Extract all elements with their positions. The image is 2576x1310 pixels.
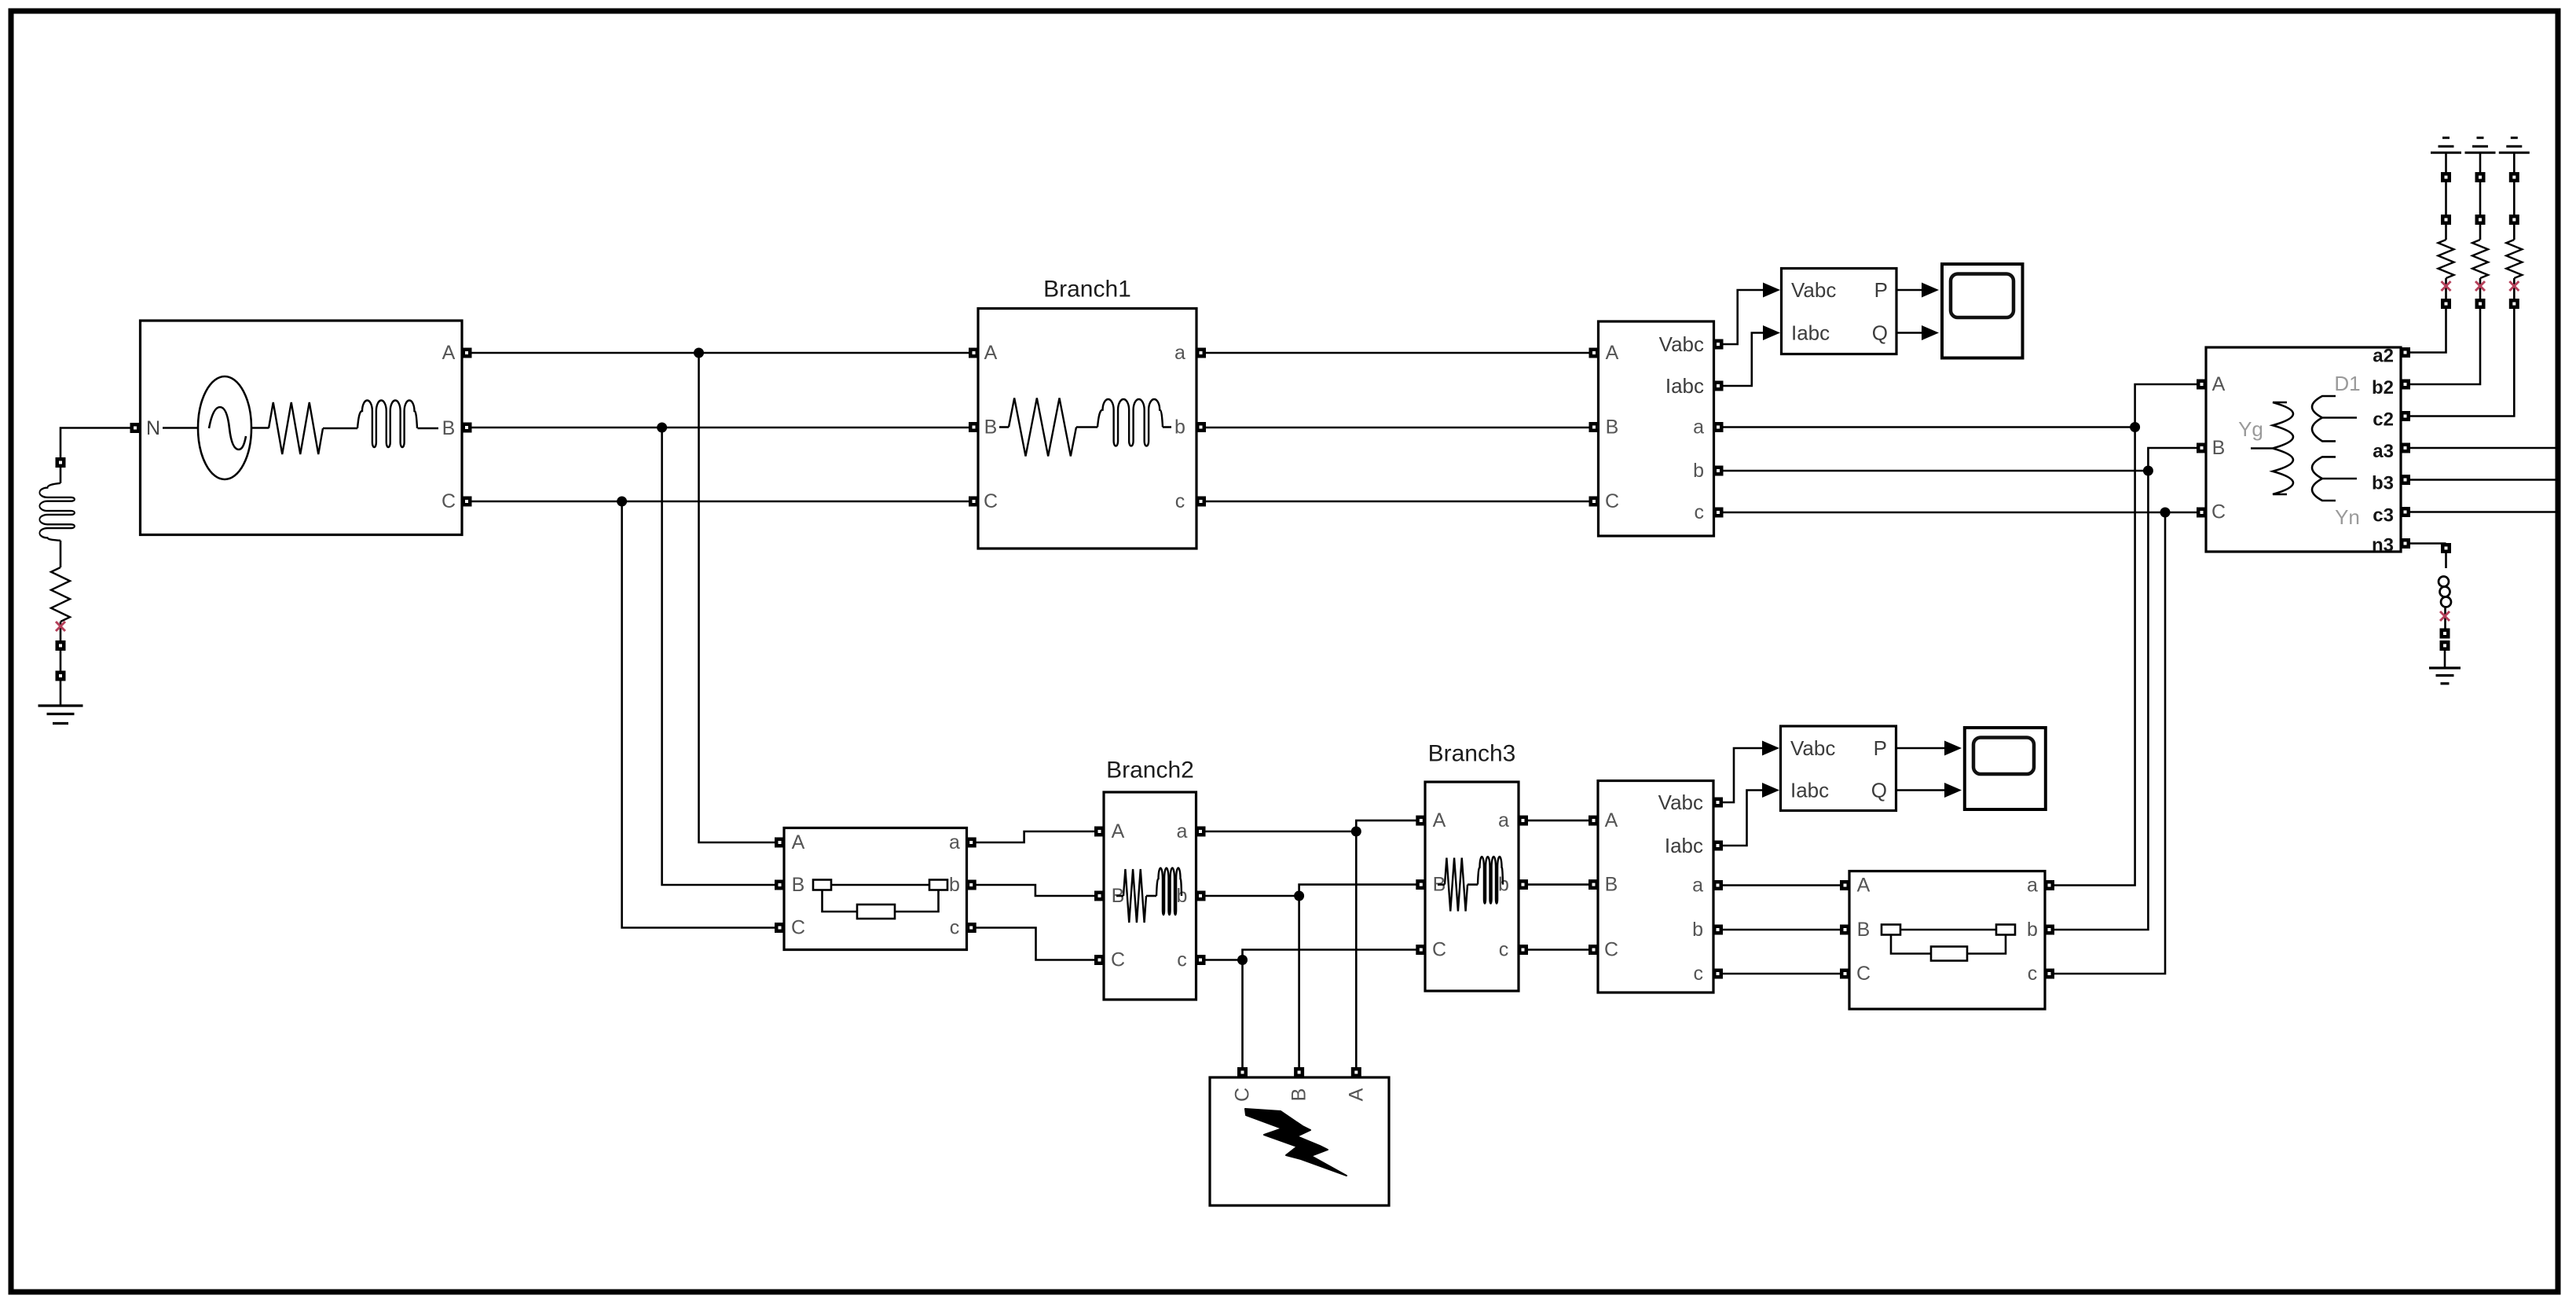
svg-text:a3: a3 [2373, 441, 2394, 462]
wire a2 to load R1 [2409, 308, 2446, 353]
junction node C2 [2160, 508, 2171, 518]
scope2 block [1965, 728, 2046, 809]
junction node B2 [2143, 466, 2153, 476]
svg-text:c: c [1175, 490, 1185, 512]
svg-text:B: B [1606, 416, 1619, 439]
VI2 port A [1588, 816, 1599, 826]
BRK2 port B [1840, 925, 1850, 935]
Branch1 port b [1196, 422, 1206, 432]
Branch1 internal inductor [1097, 399, 1163, 446]
svg-text:a: a [1174, 342, 1185, 364]
svg-text:A: A [1345, 1088, 1367, 1101]
svg-text:Branch1: Branch1 [1043, 277, 1131, 303]
svg-text:D1: D1 [2334, 372, 2360, 395]
Branch2 port B [1094, 891, 1105, 901]
svg-text:Yg: Yg [2238, 417, 2263, 441]
svg-text:A: A [984, 342, 998, 364]
VI1 port Iabc [1713, 381, 1724, 391]
load resistor R1 [2439, 240, 2454, 278]
three-phase source block [141, 321, 463, 535]
wire a3 bus to frame [2409, 447, 2556, 450]
svg-text:B: B [442, 417, 456, 439]
wire R3 to resistor [2513, 225, 2516, 240]
wire n3 port to inductor [2445, 553, 2447, 569]
svg-text:C: C [1232, 1088, 1254, 1102]
svg-text:Branch2: Branch2 [1106, 758, 1194, 783]
neutral grounding inductor L [39, 483, 75, 541]
wire c3 bus to frame [2409, 511, 2556, 513]
Branch3 port B [1416, 879, 1426, 890]
wire VI1 a to node A2 [1723, 426, 2135, 428]
wire Branch2 c east [1205, 959, 1243, 961]
svg-text:N: N [146, 417, 160, 439]
Branch3 internal inductor [1478, 857, 1503, 904]
Branch3 port A [1416, 816, 1426, 826]
wire BRK1 b to Branch2 B [976, 885, 1095, 896]
svg-text:A: A [1857, 875, 1871, 897]
wire P2 Q to scope2 [1896, 789, 1945, 791]
BRK2 port b [2044, 925, 2054, 935]
source sine wave glyph [209, 407, 246, 450]
VI2 port a [1713, 880, 1723, 890]
n3 chain port upper [2440, 629, 2450, 639]
wire Branch3 b to VI2 B [1527, 883, 1589, 886]
T1 port b3 [2400, 475, 2410, 485]
red terminal marker R1 [2442, 281, 2451, 291]
wire n3 inductor to port [2444, 606, 2446, 629]
T1 tertiary winding Yn [2312, 457, 2357, 501]
wire Branch1 icon lead right [1163, 426, 1171, 428]
svg-text:b: b [949, 874, 960, 896]
wire to ground G1 [60, 681, 62, 706]
wire VI1 Iabc to P1 [1723, 333, 1763, 387]
wire source inductor lead [418, 427, 439, 430]
Branch3 port a [1518, 816, 1528, 826]
VI1 port B [1589, 422, 1599, 432]
wire ground to R1 chain [2445, 152, 2447, 172]
svg-text:C: C [791, 917, 805, 939]
svg-text:B: B [1605, 874, 1618, 896]
wire Branch2 icon lead left [1116, 895, 1123, 897]
T1 port A [2197, 380, 2207, 390]
wire Branch3 a to VI2 A [1527, 820, 1589, 822]
wire Branch1 icon middle [1076, 426, 1097, 428]
Branch3 block (series RL) [1425, 782, 1519, 991]
VI2 port c [1713, 969, 1723, 979]
Branch1 port c [1196, 497, 1206, 507]
Branch3 port c [1518, 945, 1528, 955]
arrow into scope2 input1 [1944, 741, 1962, 756]
Branch3 port b [1518, 879, 1528, 890]
wire bus C Branch1 to VI1 [1205, 501, 1589, 503]
wire jog to Branch3 C [1243, 950, 1417, 960]
wire BRK2 b up to transformer B [2054, 448, 2197, 930]
junction bus B tap [657, 423, 667, 433]
red terminal marker n3 [2440, 611, 2450, 621]
Branch3 internal resistor [1445, 858, 1468, 912]
R3 output port [2509, 299, 2519, 309]
T1 port c3 [2400, 507, 2410, 517]
wire Branch2 a east [1205, 831, 1357, 833]
svg-text:C: C [442, 490, 456, 512]
svg-text:P: P [1874, 736, 1887, 760]
svg-text:P: P [1874, 278, 1888, 302]
three-phase V-I measurement block VI2 [1598, 781, 1713, 993]
arrow into P1 Vabc [1763, 283, 1780, 298]
wire VI1 c to transformer C [1723, 512, 2197, 514]
svg-text:B: B [1288, 1088, 1310, 1102]
BRK1 port B [775, 880, 785, 890]
svg-text:b2: b2 [2372, 377, 2394, 398]
neutral grounding resistor R [51, 567, 70, 622]
wire R1 to resistor [2445, 225, 2447, 240]
scope1 block [1942, 264, 2023, 358]
BRK2 breaker icon [1882, 925, 2015, 961]
source port N [130, 423, 141, 433]
svg-text:a: a [2027, 875, 2038, 897]
svg-text:A: A [792, 831, 805, 853]
svg-text:b: b [1692, 919, 1703, 941]
Branch1 port B [969, 422, 979, 432]
wire fault tap C down [1241, 960, 1244, 1069]
wire fault tap A down [1355, 831, 1358, 1068]
BRK2 port a [2044, 880, 2054, 890]
wire R3 resistor to output port [2513, 278, 2516, 299]
junction fault tap B [1294, 891, 1304, 901]
VI1 port c [1713, 508, 1724, 518]
VI2 port C [1588, 945, 1599, 955]
svg-text:a: a [1692, 875, 1703, 897]
ground R2 (inverted) [2465, 138, 2496, 152]
arrow into scope2 input2 [1944, 783, 1962, 798]
load resistor R3 [2506, 240, 2522, 278]
load resistor R2 [2472, 240, 2488, 278]
svg-text:b: b [2027, 919, 2038, 941]
arrow into P1 Iabc [1763, 325, 1780, 340]
wire b2 to load R2 [2409, 308, 2480, 384]
red terminal marker R2 [2475, 281, 2485, 291]
three-phase V-I measurement block VI1 [1599, 321, 1714, 536]
svg-text:A: A [1433, 809, 1446, 831]
neutral chain port lower [56, 671, 66, 681]
svg-text:A: A [442, 342, 456, 364]
wire bus B tap down to breaker1 B [662, 427, 775, 885]
ground G1 [38, 706, 83, 724]
wire neutral chain between ports [60, 651, 62, 671]
svg-text:c: c [950, 917, 960, 939]
T1 port b2 [2400, 380, 2410, 390]
source internal resistor [269, 402, 323, 454]
svg-text:a: a [1693, 416, 1704, 439]
VI2 port b [1713, 925, 1723, 935]
svg-text:C: C [1604, 939, 1618, 961]
svg-text:A: A [1605, 809, 1618, 831]
svg-text:C: C [1111, 949, 1125, 971]
R2 chain port upper [2475, 172, 2486, 182]
wire BRK2 a up to transformer A [2054, 384, 2197, 886]
T1 port c2 [2400, 411, 2410, 421]
svg-text:Iabc: Iabc [1665, 834, 1703, 857]
svg-text:c: c [1499, 939, 1509, 961]
wire P1 P to scope1 [1896, 289, 1922, 292]
wire R3 chain middle [2513, 182, 2516, 215]
wire VI1 b to node B2 [1723, 470, 2148, 472]
scope1 screen [1951, 274, 2014, 318]
T1 port C [2197, 508, 2207, 518]
svg-text:C: C [1856, 963, 1871, 985]
R2 chain port lower [2475, 215, 2486, 225]
BRK1 port c [966, 923, 977, 933]
Branch1 port A [969, 348, 979, 358]
Branch2 internal inductor [1156, 868, 1182, 915]
scope2 screen [1973, 738, 2034, 775]
wire R2 resistor to output port [2479, 278, 2482, 299]
svg-text:Branch3: Branch3 [1428, 741, 1516, 767]
fault port C [1237, 1067, 1248, 1077]
wire R2 chain middle [2479, 182, 2482, 215]
wire jog to Branch3 A [1356, 820, 1416, 831]
svg-text:B: B [1857, 919, 1871, 941]
svg-text:b3: b3 [2372, 473, 2394, 494]
arrow into scope1 input2 [1922, 325, 1939, 340]
ground R3 (inverted) [2499, 138, 2530, 152]
R1 chain port lower [2441, 215, 2451, 225]
svg-text:a: a [949, 831, 960, 853]
VI1 port Vabc [1713, 339, 1724, 350]
active-reactive power block P2 [1781, 726, 1896, 811]
wire VI1 Vabc to P1 [1723, 290, 1763, 344]
three-phase breaker block BRK1 [784, 828, 967, 950]
svg-text:B: B [2212, 437, 2226, 459]
svg-text:a2: a2 [2373, 346, 2394, 367]
n3 chain port [2441, 543, 2451, 553]
svg-text:Iabc: Iabc [1790, 779, 1829, 802]
wire neutral port to inductor [60, 467, 62, 483]
BRK2 port A [1840, 880, 1850, 890]
Branch1 internal resistor [1009, 398, 1076, 457]
wire R1 resistor to output port [2445, 278, 2447, 299]
wire jog to Branch3 B [1299, 885, 1416, 896]
R1 output port [2441, 299, 2451, 309]
wire Branch2 b east [1205, 895, 1299, 897]
neutral chain port upper [56, 640, 66, 651]
svg-text:Iabc: Iabc [1665, 374, 1704, 398]
BRK1 port C [775, 923, 785, 933]
wire bus B Branch1 to VI1 [1205, 427, 1589, 429]
VI1 port a [1713, 422, 1724, 432]
arrow into P2 Vabc [1762, 741, 1779, 756]
svg-text:Vabc: Vabc [1790, 736, 1835, 760]
junction node A2 [2130, 422, 2140, 432]
T1 secondary winding D1 [2312, 396, 2357, 441]
source port C [462, 497, 472, 507]
svg-text:Q: Q [1871, 779, 1887, 802]
BRK2 port c [2044, 969, 2054, 979]
svg-text:c2: c2 [2373, 409, 2394, 431]
red terminal marker R3 [2509, 281, 2519, 291]
VI1 port A [1589, 348, 1599, 358]
T1 port B [2197, 443, 2207, 453]
ground G2 [2429, 668, 2461, 684]
svg-text:b: b [1174, 416, 1185, 439]
wire VI2 b to BRK2 B [1723, 929, 1841, 931]
T1 primary winding Yg [2251, 402, 2293, 494]
VI2 port Iabc [1713, 841, 1723, 851]
three-winding transformer block T1 [2206, 347, 2401, 552]
svg-text:Vabc: Vabc [1659, 332, 1704, 356]
fault lightning bolt icon [1245, 1109, 1347, 1176]
R1 chain port upper [2441, 172, 2451, 182]
BRK1 port A [775, 838, 785, 848]
wire VI2 c to BRK2 C [1723, 973, 1841, 975]
Branch2 port A [1094, 827, 1105, 837]
R3 chain port upper [2509, 172, 2519, 182]
Branch2 port a [1196, 827, 1206, 837]
VI1 port C [1589, 497, 1599, 507]
neutral branch port [56, 457, 66, 468]
Branch2 port b [1196, 891, 1206, 901]
wire source N lead [163, 427, 198, 429]
wire bus A tap down to breaker1 A [699, 353, 776, 842]
wire Branch3 c to VI2 C [1527, 949, 1589, 951]
Branch1 port C [969, 497, 979, 507]
T1 port n3 [2400, 538, 2410, 549]
svg-text:c: c [1177, 949, 1187, 971]
n3 grounding inductor [2439, 577, 2451, 607]
Branch2 internal resistor [1123, 869, 1146, 923]
svg-text:A: A [1112, 820, 1125, 842]
svg-text:a: a [1498, 809, 1509, 831]
wire BRK2 c up to node C2 [2054, 512, 2165, 974]
T1 port a3 [2400, 443, 2410, 453]
svg-text:B: B [792, 874, 805, 896]
svg-text:A: A [2212, 373, 2226, 395]
svg-text:a: a [1177, 820, 1188, 842]
wire n3 to grounding impedance [2409, 542, 2446, 545]
svg-text:Yn: Yn [2335, 505, 2360, 529]
red terminal marker neutral [56, 622, 65, 631]
VI2 port Vabc [1713, 798, 1723, 808]
BRK1 port a [966, 838, 977, 848]
wire bus B source to Branch1 [471, 427, 969, 429]
T1 port a2 [2400, 347, 2410, 358]
BRK2 port C [1840, 969, 1850, 979]
wire source N to neutral branch [60, 428, 130, 458]
svg-text:c3: c3 [2373, 505, 2394, 527]
wire Branch3 icon lead left [1438, 883, 1445, 886]
Branch3 port C [1416, 945, 1426, 955]
svg-text:C: C [1432, 939, 1446, 961]
Branch2 port c [1196, 955, 1206, 965]
wire Branch2 icon middle [1146, 895, 1156, 897]
fault port A [1351, 1067, 1361, 1077]
wire c2 to load R3 [2409, 308, 2514, 416]
wire fault tap B down [1298, 896, 1300, 1068]
wire bus C source to Branch1 [471, 501, 969, 503]
svg-text:b: b [1693, 460, 1704, 482]
wire R1 chain middle [2445, 182, 2447, 215]
source internal inductor [357, 401, 417, 448]
Branch1 block (series RL) [978, 309, 1196, 549]
VI1 port b [1713, 466, 1724, 476]
wire VI2 Vabc to P2 [1723, 748, 1763, 802]
wire bus A source to Branch1 [471, 352, 969, 354]
Branch2 block (series RL) [1104, 792, 1196, 1000]
svg-text:C: C [984, 490, 998, 512]
source port B [462, 423, 472, 433]
R2 output port [2475, 299, 2486, 309]
Branch1 port a [1196, 348, 1206, 358]
svg-text:Iabc: Iabc [1791, 321, 1830, 345]
source AC voltage symbol [198, 376, 251, 479]
ground R1 (inverted) [2431, 138, 2461, 152]
source port A [462, 348, 472, 358]
wire P2 P to scope2 [1896, 747, 1945, 750]
wire source to resistor [251, 427, 269, 429]
junction bus C tap [617, 497, 627, 507]
wire VI2 Iabc to P2 [1723, 791, 1763, 846]
BRK1 port b [966, 880, 977, 890]
svg-text:c: c [2028, 963, 2038, 985]
wire neutral inductor to resistor [60, 541, 62, 567]
R3 chain port lower [2509, 215, 2519, 225]
junction bus A tap [694, 348, 704, 358]
svg-text:Vabc: Vabc [1658, 791, 1703, 814]
wire BRK1 a to Branch2 A [976, 831, 1095, 842]
wire Branch3 icon middle [1468, 883, 1478, 886]
wire P1 Q to scope1 [1896, 332, 1922, 334]
Branch2 port C [1094, 955, 1105, 965]
VI2 port B [1588, 879, 1599, 890]
svg-text:b: b [1498, 874, 1509, 896]
svg-text:c: c [1695, 501, 1705, 523]
wire neutral resistor to port [60, 622, 62, 641]
wire BRK1 c to Branch2 C [976, 928, 1095, 960]
arrow into scope1 input1 [1922, 283, 1939, 298]
three-phase breaker block BRK2 [1849, 871, 2045, 1010]
wire R2 to resistor [2479, 225, 2482, 240]
wire bus A Branch1 to VI1 [1205, 352, 1589, 354]
fault port B [1294, 1067, 1304, 1077]
three-phase fault block [1210, 1077, 1389, 1205]
wire ground to R3 chain [2513, 152, 2516, 172]
svg-text:C: C [2211, 501, 2226, 523]
svg-text:A: A [1606, 342, 1619, 364]
junction fault tap A [1351, 827, 1361, 837]
arrow into P2 Iabc [1762, 783, 1779, 798]
wire n3 chain to ground G2 [2444, 651, 2446, 669]
wire source resistor to inductor [323, 427, 357, 430]
svg-text:C: C [1605, 490, 1619, 512]
BRK1 breaker icon [813, 880, 947, 919]
svg-text:Vabc: Vabc [1791, 278, 1836, 302]
wire bus C tap down to breaker1 C [622, 501, 775, 928]
svg-text:Q: Q [1872, 321, 1888, 345]
junction fault tap C [1237, 955, 1248, 965]
active-reactive power block P1 [1782, 269, 1897, 354]
wire VI2 a to BRK2 A [1723, 884, 1841, 886]
svg-text:n3: n3 [2372, 535, 2394, 556]
n3 chain port lower [2440, 640, 2450, 651]
svg-text:c: c [1694, 963, 1704, 985]
wire ground to R2 chain [2479, 152, 2482, 172]
wire b3 bus to frame [2409, 479, 2556, 481]
svg-text:B: B [984, 416, 998, 439]
wire Branch1 icon lead left [999, 426, 1009, 428]
